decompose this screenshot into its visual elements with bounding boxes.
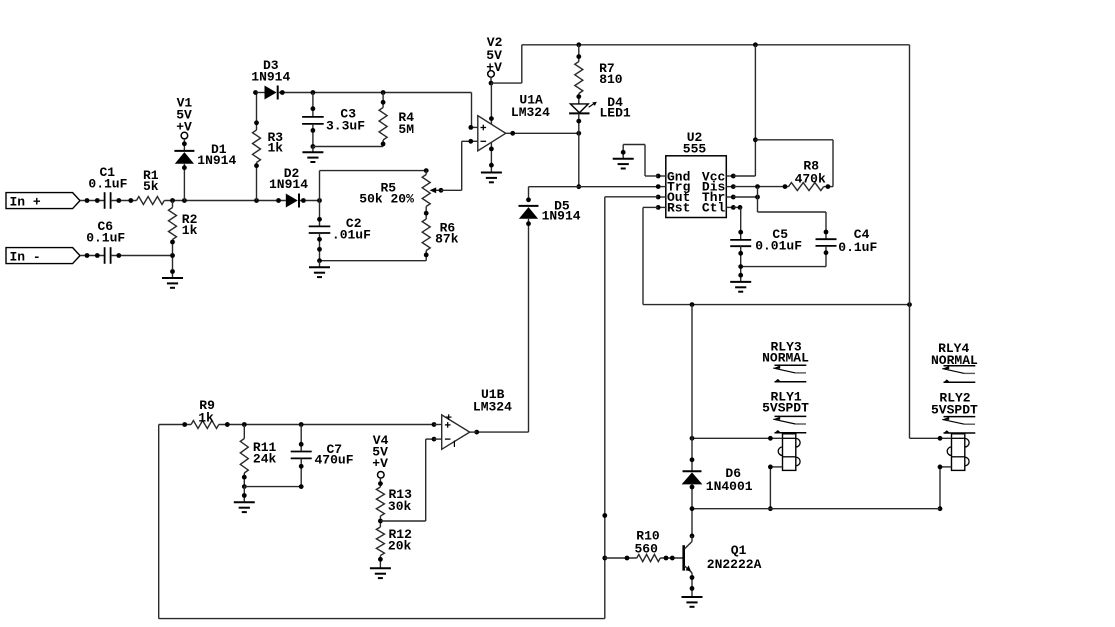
wire U2 Thr to C4 (733, 196, 757, 198)
resistor R12 (376, 527, 412, 568)
wire D6 to Q1 collector (691, 483, 693, 536)
wire D1 to main node (183, 164, 185, 201)
wire Q1 emitter to ground (691, 574, 693, 597)
relay contact RLY3 (773, 365, 807, 381)
ground R11 (234, 502, 255, 512)
junction dots RLY2 coil bottom (938, 465, 943, 512)
relay coil RLY1 (778, 434, 800, 471)
svg-text:In -: In - (10, 249, 41, 264)
resistor R9 (191, 398, 219, 428)
wire U2 Ctl to C5 (733, 206, 740, 208)
wire RLY2 coil bottom (940, 466, 952, 468)
relay contact RLY4 (942, 366, 976, 382)
junction dot R12 bottom (378, 557, 383, 562)
ground C2 (309, 267, 330, 277)
resistor R2 (169, 201, 198, 279)
wire divider to U1B - (380, 520, 425, 522)
wire U2 Gnd pin (645, 175, 658, 177)
svg-text:LM324: LM324 (473, 399, 512, 414)
wire U2 Vcc to top rail (733, 175, 755, 177)
resistor R11 (240, 425, 276, 487)
wire R6 bottom to C2 bottom (320, 260, 427, 262)
power terminal V2 (486, 35, 502, 77)
junction dots U1A output (510, 131, 581, 136)
junction dot D3 anode (253, 90, 258, 95)
svg-text:0.01uF: 0.01uF (755, 238, 802, 253)
junction dots R3 (254, 120, 259, 168)
wire C2 ground stem (319, 261, 321, 268)
svg-text:5M: 5M (398, 122, 414, 137)
junction dot C5 top (738, 230, 743, 235)
svg-text:470k: 470k (795, 172, 826, 187)
svg-text:Rst: Rst (667, 200, 690, 215)
junction dots In- lead (85, 253, 100, 258)
svg-text:+V: +V (372, 456, 388, 471)
junction dot V2 (489, 81, 494, 86)
junction dot Vcc/R8 loop (753, 137, 758, 142)
capacitor C1 (88, 165, 127, 209)
svg-text:50k 20%: 50k 20% (359, 192, 414, 207)
junction dot R7 top (576, 54, 581, 59)
ground U1A (481, 173, 502, 183)
junction dot C4 top (824, 230, 829, 235)
ground R2 (162, 278, 183, 288)
wire C2 top (319, 201, 321, 227)
junction dot C6 right (116, 253, 121, 258)
wire RLY1 coil bottom (770, 466, 782, 468)
junction dot U1B output (474, 430, 479, 435)
junction dots D3 rail (280, 90, 386, 95)
wire Trg to D5 (528, 187, 530, 201)
wire down to C2 node (319, 171, 321, 201)
wire R8 loop top (755, 139, 833, 141)
wire C2 node to R5 top (320, 170, 427, 172)
svg-text:LM324: LM324 (511, 105, 550, 120)
wire R8 right (824, 186, 833, 188)
junction dot U1A + input (468, 125, 473, 130)
power terminal V1 (176, 95, 192, 139)
junction dot R5 top (424, 168, 429, 173)
junction dots R10 right (664, 556, 675, 561)
junction dot D5 anode (526, 221, 531, 226)
svg-text:0.1uF: 0.1uF (88, 176, 127, 191)
junction dot R5-R6 (424, 211, 429, 216)
diode D2 (269, 166, 308, 208)
ground R12 (370, 568, 391, 578)
wire V2 down (490, 77, 492, 83)
resistor R8 (789, 159, 826, 191)
junction dot RLY2 coil top (938, 436, 943, 441)
wire C1 to R1 (111, 200, 137, 202)
capacitor C2 (309, 216, 371, 242)
svg-text:24k: 24k (253, 452, 277, 467)
svg-text:1k: 1k (268, 141, 284, 156)
svg-text:810: 810 (599, 72, 623, 87)
junction dot R9 left (182, 422, 187, 427)
capacitor C3 (302, 107, 365, 134)
diode D3 (251, 58, 290, 99)
svg-text:1N914: 1N914 (542, 208, 581, 223)
svg-text:1k: 1k (182, 223, 198, 238)
svg-text:0.1uF: 0.1uF (86, 231, 125, 246)
junction dot U1A - input (468, 139, 473, 144)
wire left rail to R9 (159, 424, 191, 426)
wire right rail down to RLY2 (909, 45, 911, 439)
wire C7 bottom (300, 458, 302, 486)
svg-text:.01uF: .01uF (332, 227, 371, 242)
junction dot C2 top (317, 217, 322, 222)
wire V+ into U1A (490, 83, 492, 124)
wire R5 to R6 (425, 207, 427, 220)
svg-text:5VSPDT: 5VSPDT (931, 403, 978, 418)
wire left feedback rail (158, 425, 160, 619)
connector In- (6, 248, 80, 265)
resistor R6 (422, 219, 459, 261)
wire U1B output (477, 431, 529, 433)
wire R10 to Q1 base (660, 557, 682, 559)
junction dot C3 top (311, 106, 316, 111)
relay contact RLY2 (942, 417, 976, 433)
junction dots RLY1 coil bottom (768, 465, 773, 512)
relay coil RLY2 (947, 434, 969, 471)
U2 pin stubs (658, 176, 733, 207)
wire Out to R10 (605, 557, 637, 559)
wire V1 to D1 (183, 139, 185, 151)
power terminal V4 (372, 433, 388, 478)
wire C2 bottom (319, 233, 321, 261)
junction dot R5 wiper (439, 188, 444, 193)
wire R7 to D4 (578, 94, 580, 104)
wire C5 bottom to ground (740, 246, 742, 282)
wire C7 top (300, 425, 302, 452)
junction dots In+ lead (85, 198, 100, 203)
wire In- to C6 (80, 255, 104, 257)
junction dot D6 cathode (690, 457, 695, 462)
junction dots Out wire (602, 513, 607, 560)
wire In+ to C1 (80, 200, 104, 202)
junction dots C5 bottom (738, 251, 743, 278)
junction dot R10 left (625, 556, 630, 561)
ground C3 (302, 152, 323, 162)
junction dots top rail (576, 42, 757, 47)
svg-text:NORMAL: NORMAL (762, 350, 809, 365)
wire RLY1 coil top (692, 437, 783, 439)
junction dot R13 top (378, 481, 383, 486)
junction dot R8 right (826, 184, 831, 189)
junction dot R7 bottom (576, 94, 581, 99)
resistor R1 (137, 168, 165, 205)
svg-text:87k: 87k (435, 231, 459, 246)
wire V4 to R13 (379, 478, 381, 487)
svg-text:30k: 30k (388, 499, 412, 514)
junction dots C1-R1 (116, 198, 133, 203)
junction dots U2 right pins (731, 174, 736, 210)
wire R11 to C7 bottom (244, 486, 301, 488)
op-amp U1B (442, 387, 512, 449)
junction dots U2 left pins (656, 174, 661, 210)
junction dots C3 bottom (311, 128, 316, 149)
wire Trg line (529, 186, 658, 188)
capacitor C5 (730, 227, 802, 253)
svg-text:LED1: LED1 (599, 106, 630, 121)
junction dot U1B - input (432, 437, 437, 442)
wire R11 ground stem (243, 487, 245, 503)
svg-text:20k: 20k (388, 539, 412, 554)
wire relay common to Q1 collector node (692, 508, 940, 510)
wire U2 Rst pin to relay rail (643, 206, 658, 208)
ground U2 (613, 159, 634, 169)
svg-text:1N4001: 1N4001 (706, 479, 753, 494)
wire R9 to U1B + (219, 424, 434, 426)
wire D4 to Trg line (578, 113, 580, 186)
svg-text:555: 555 (683, 141, 707, 156)
diode D5 (519, 198, 581, 223)
junction dots R4 (381, 100, 386, 146)
junction dots C2 bottom (317, 237, 322, 263)
wire top +V rail (522, 44, 910, 46)
capacitor C4 (816, 227, 878, 255)
wire C4 to C5 bottom (741, 266, 826, 268)
wire C3 ground stem (312, 147, 314, 153)
junction dot Thr (755, 195, 760, 200)
resistor R3 (253, 93, 284, 201)
resistor R7 (575, 61, 623, 94)
wire RLY2 coil top (910, 437, 952, 439)
wire rail riser (521, 45, 523, 83)
resistor R10 (634, 529, 660, 562)
junction dot R13-R12 (378, 519, 383, 524)
junction dot U2 ground (621, 150, 626, 155)
junction dots D6 anode (690, 485, 695, 539)
junction dot D1 anode (182, 165, 187, 170)
transistor Q1 (684, 536, 762, 574)
svg-text:+V: +V (486, 60, 502, 75)
capacitor C7 (291, 442, 354, 468)
junction dots D4 bottom (576, 119, 581, 189)
wire R1 to D2 (164, 200, 285, 202)
wire U1A output (506, 132, 579, 134)
diode D1 (174, 142, 236, 168)
svg-text:2N2222A: 2N2222A (707, 557, 762, 572)
junction dots R9 line (225, 422, 436, 427)
junction dots C7 bottom (299, 464, 304, 489)
junction dots Dis line (755, 184, 787, 189)
ground C5 (730, 282, 751, 292)
wire C3 top (312, 93, 314, 117)
wire to U1A + input (471, 93, 473, 128)
svg-text:1N914: 1N914 (269, 177, 308, 192)
wire D3 to opamp (279, 92, 472, 94)
LED D4 (569, 95, 631, 121)
svg-text:Ctl: Ctl (702, 200, 726, 215)
wire C4 bottom (825, 246, 827, 267)
svg-text:In +: In + (10, 194, 41, 209)
svg-text:3.3uF: 3.3uF (326, 119, 365, 134)
junction dots main node (170, 198, 281, 203)
junction dots U1A V- (489, 147, 494, 168)
svg-text:Q1: Q1 (731, 543, 747, 558)
junction dot D1 cathode (182, 141, 187, 146)
svg-text:1k: 1k (198, 410, 214, 425)
junction dot C7 top (299, 442, 304, 447)
svg-text:5k: 5k (143, 179, 159, 194)
diode D6 (682, 466, 753, 494)
junction dot Ctl (738, 205, 743, 210)
svg-text:0.1uF: 0.1uF (838, 240, 877, 255)
wire C3 to R4 bottom (313, 146, 383, 148)
junction dots R11 bottom (242, 475, 247, 489)
junction dots R2 bottom (170, 240, 175, 274)
junction dot C4 bottom (824, 250, 829, 255)
junction dots RLY1 coil top (690, 436, 773, 441)
capacitor C6 (86, 219, 125, 264)
svg-text:1N914: 1N914 (197, 153, 236, 168)
wire D2 to C2 node (300, 200, 320, 202)
wire R8 loop riser (832, 140, 834, 187)
junction dot D5 cathode (526, 197, 531, 202)
resistor R13 (376, 487, 412, 527)
R5 wiper arrow (430, 187, 441, 193)
junction dot R11 ground (242, 493, 247, 498)
op-amp U1A (478, 92, 550, 151)
junction dots Rst rail (690, 302, 912, 307)
svg-text:5VSPDT: 5VSPDT (762, 401, 809, 416)
svg-text:+V: +V (176, 120, 192, 135)
junction dot U1A V+ (489, 116, 494, 121)
relay contact RLY1 (773, 416, 807, 432)
IC U2 555 (666, 130, 727, 218)
ground Q1 (682, 597, 703, 607)
wire C6 to R2 node (111, 255, 173, 257)
svg-text:560: 560 (634, 541, 658, 556)
wire D5 to U1B output (528, 219, 530, 432)
wire U1B apex out (470, 431, 477, 433)
wire bottom rail (159, 618, 605, 620)
connector In+ (6, 193, 80, 210)
wire Dis to R8 (733, 186, 788, 188)
potentiometer R5 (359, 171, 430, 207)
wire U1A V- to ground (490, 142, 492, 172)
junction dots D2 cathode (301, 198, 322, 203)
junction dots Q1 emitter (690, 575, 695, 591)
junction dot R6 bottom (424, 253, 429, 258)
wire wiper to U1A - (441, 189, 462, 191)
wire Rst node down to D6 (691, 305, 693, 472)
wire U2 Out pin down to bottom rail (605, 196, 658, 198)
wire V2 to rail riser (491, 82, 522, 84)
svg-text:1N914: 1N914 (251, 70, 290, 85)
wire C3 bottom (312, 124, 314, 147)
resistor R4 (379, 93, 414, 147)
wire rail to R7 (578, 45, 580, 62)
svg-text:470uF: 470uF (314, 453, 353, 468)
